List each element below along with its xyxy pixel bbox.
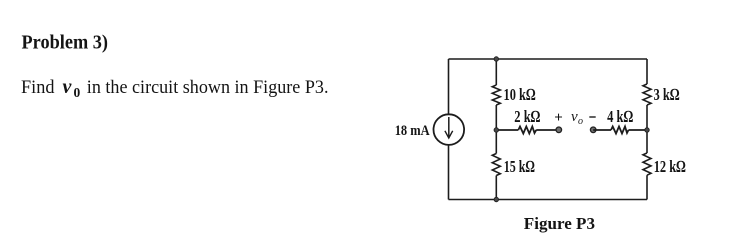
problem statement text — [21, 76, 329, 100]
label: 15 kOhm value — [504, 157, 535, 176]
problem title text — [22, 32, 109, 54]
svg-text:v: v — [63, 76, 73, 98]
label: 4 kOhm value — [607, 107, 633, 126]
terminal node + (open terminal dot) — [556, 127, 562, 133]
wire: middle branch centre segment — [495, 105, 497, 154]
junction node: bottom of middle branch — [494, 197, 498, 201]
wire: middle branch top segment — [495, 59, 497, 85]
current source I1 18 mA (circle with down arrow) — [434, 114, 465, 145]
svg-text:v: v — [571, 109, 578, 125]
label: plus sign of vo — [554, 110, 563, 126]
terminal node - (open terminal dot) — [590, 127, 596, 133]
wire: middle horizontal left segment (to 2k resistor) — [496, 129, 518, 131]
svg-text:in the circuit shown in Figure: in the circuit shown in Figure P3. — [87, 77, 329, 98]
label: 10 kOhm value — [504, 85, 536, 104]
label: 12 kOhm value — [654, 157, 686, 176]
svg-text:18 mA: 18 mA — [395, 123, 430, 139]
svg-text:o: o — [578, 116, 583, 127]
wire: from 4k resistor to right branch — [629, 129, 648, 131]
svg-text:Figure P3: Figure P3 — [524, 214, 595, 233]
resistor 10 kOhm (vertical zigzag) — [492, 85, 500, 105]
svg-text:3 kΩ: 3 kΩ — [654, 85, 680, 104]
wire: right branch top segment — [646, 59, 648, 84]
resistor 4 kOhm (horizontal zigzag) — [611, 127, 629, 134]
junction node: top of middle branch — [494, 57, 498, 61]
wire: middle branch bottom segment — [495, 176, 497, 200]
junction node: middle branch / 2k wire — [494, 128, 498, 132]
resistor 15 kOhm (vertical zigzag) — [492, 154, 500, 176]
wire: left edge upper (to current source) — [448, 59, 450, 114]
resistor 12 kOhm (vertical zigzag) — [643, 153, 651, 175]
wire: right branch bottom segment — [646, 175, 648, 199]
svg-text:Problem 3): Problem 3) — [22, 32, 109, 54]
resistor 2 kOhm (horizontal zigzag) — [518, 127, 536, 134]
wire: from minus terminal to 4k resistor — [593, 129, 611, 131]
label: 3 kOhm value — [654, 85, 680, 104]
svg-text:15 kΩ: 15 kΩ — [504, 157, 535, 176]
resistor 3 kOhm (vertical zigzag) — [643, 84, 651, 105]
svg-text:4 kΩ: 4 kΩ — [607, 107, 633, 126]
svg-text:0: 0 — [74, 85, 81, 100]
label: vo voltage — [571, 109, 583, 127]
svg-text:2 kΩ: 2 kΩ — [514, 107, 540, 126]
label: 18 mA value — [395, 123, 430, 139]
label: minus sign of vo — [589, 116, 595, 118]
wire: top horizontal — [449, 58, 648, 60]
label: 2 kOhm value — [514, 107, 540, 126]
junction node: right branch / 4k wire — [645, 128, 649, 132]
figure caption — [524, 214, 595, 233]
svg-text:Find: Find — [21, 77, 55, 98]
svg-text:12 kΩ: 12 kΩ — [654, 157, 686, 176]
wire: right branch centre segment — [646, 105, 648, 153]
wire: from 2k resistor to plus terminal — [536, 129, 556, 131]
wire: bottom horizontal — [449, 199, 648, 201]
wire: left edge lower (from current source) — [448, 145, 450, 200]
svg-text:+: + — [554, 110, 563, 126]
svg-text:10 kΩ: 10 kΩ — [504, 85, 536, 104]
